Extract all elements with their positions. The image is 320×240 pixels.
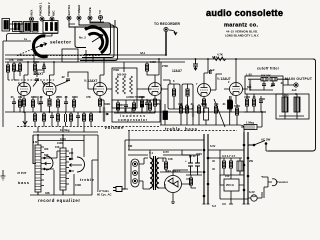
grid resistor RB	[18, 64, 21, 71]
value label .05 at 64,98	[64, 95, 68, 99]
svg-text:MAIN OUTPUT: MAIN OUTPUT	[285, 77, 313, 81]
value label 6 at 44,84	[44, 81, 46, 85]
wire dropper drops	[224, 158, 240, 175]
svg-text:TUNER: TUNER	[77, 4, 81, 15]
label no2	[79, 36, 86, 40]
bias cap m5 electrolytic	[65, 114, 67, 122]
input jack TUNER label	[77, 4, 81, 15]
tube V2 12AX7b	[43, 83, 56, 96]
tube V2 plate wire	[50, 62, 55, 83]
svg-text:600: 600	[247, 85, 252, 89]
filter resistor h2	[270, 78, 277, 81]
input jack PHONO2 label	[52, 10, 56, 16]
value label .03 at 280,84	[280, 81, 284, 85]
selector wafer 2 inner arc	[89, 33, 103, 49]
svg-text:12AX7: 12AX7	[33, 72, 43, 76]
wire V3 to box	[107, 88, 143, 90]
jack terminal 3	[50, 17, 54, 21]
wire bottom rail ps	[220, 199, 248, 204]
label 117 volts	[97, 189, 109, 193]
svg-text:12AU7: 12AU7	[172, 69, 182, 73]
mid band cap q7 dark	[228, 100, 233, 109]
value label 300 at 44,150	[44, 147, 49, 151]
filter cap f2	[195, 158, 200, 172]
svg-text:5600: 5600	[118, 103, 124, 107]
value label 470 at 186,180	[186, 177, 191, 181]
AC switch lever	[248, 141, 265, 146]
svg-text:.1uF: .1uF	[291, 88, 297, 92]
svg-text:6.3: 6.3	[212, 204, 216, 208]
label 1700	[14, 69, 20, 73]
resistor 47k in network	[51, 23, 53, 31]
resistor row1 c	[56, 100, 59, 107]
power box top edge	[125, 139, 204, 141]
wire left edge bus	[2, 41, 4, 127]
wire mid right drops	[244, 94, 266, 112]
svg-text:33K: 33K	[45, 191, 50, 195]
power box left edge	[125, 140, 128, 189]
svg-text:AUDIO TAPER: AUDIO TAPER	[126, 95, 144, 99]
svg-text:220K: 220K	[259, 97, 265, 101]
value label 1 M at 18,98	[18, 95, 22, 99]
filter cap f1 plus	[185, 159, 187, 163]
jack terminal 5	[77, 16, 81, 20]
bass wiper arrow	[45, 162, 52, 165]
value label 47K at 9,61	[9, 58, 14, 62]
selector wafer 2 spoke	[92, 35, 103, 43]
wire lamp	[248, 192, 262, 198]
svg-text:TV: TV	[98, 10, 102, 14]
svg-text:MIC: MIC	[52, 10, 56, 16]
wire right B+ drop	[268, 59, 316, 151]
title: address line 1	[226, 30, 258, 34]
rectifier internals	[168, 178, 178, 187]
value label 600 at 247,88	[247, 85, 252, 89]
choke resistor	[164, 162, 167, 169]
treble wiper arrow	[70, 164, 83, 167]
loudness cap b	[124, 105, 128, 106]
svg-text:record equalizer: record equalizer	[38, 198, 80, 203]
label record equalizer	[38, 198, 80, 203]
bias resistor m9	[89, 114, 92, 121]
wire jack bus to wafer2 outer	[69, 20, 118, 61]
value label 47K at 178,105	[178, 102, 183, 106]
svg-text:220: 220	[69, 151, 74, 155]
mid right cap p3	[259, 101, 263, 102]
mid band box q5	[204, 108, 209, 120]
wire can caps	[279, 94, 304, 119]
value label 2 at 18,84	[18, 81, 20, 85]
wire V6 cathode out	[236, 89, 248, 104]
far left input box	[2, 19, 10, 32]
mid band resistor q6	[214, 106, 217, 113]
value label 40 at 212,170	[212, 167, 215, 171]
svg-text:LONG ISLAND CITY 1, N.Y.: LONG ISLAND CITY 1, N.Y.	[225, 33, 259, 37]
jack terminal 2	[40, 17, 44, 21]
svg-text:No. 2: No. 2	[79, 36, 86, 40]
svg-text:.1uF: .1uF	[209, 68, 215, 72]
wire coupling 2	[56, 72, 88, 86]
cap top c2	[42, 67, 46, 68]
tube V4 12AX7	[149, 83, 162, 96]
coupling cap V1-V2	[35, 79, 39, 80]
volume pot	[103, 107, 105, 122]
svg-text:4.7K: 4.7K	[217, 53, 223, 57]
resistor row1 e	[72, 100, 75, 107]
wire top c drops	[35, 62, 44, 75]
label MAIN OUTPUT	[285, 77, 313, 81]
filter resistor h1	[261, 78, 268, 81]
svg-text:450V: 450V	[196, 152, 202, 156]
bus bar B dots	[243, 144, 245, 146]
wire eq bottoms	[30, 135, 98, 195]
transformer primary	[150, 158, 153, 188]
resistor mid f1	[140, 100, 143, 107]
label 5600 bottom	[118, 103, 124, 107]
title: address line 2	[225, 33, 259, 37]
svg-text:47K: 47K	[86, 95, 91, 99]
wire eq links	[45, 148, 75, 171]
wire V5 plate	[204, 59, 208, 84]
chassis dashed line right	[128, 130, 237, 132]
label AC SW	[261, 138, 271, 142]
value label 390 at 69,160	[69, 157, 74, 161]
input jack EXTRA label	[67, 4, 71, 15]
svg-text:500K: 500K	[234, 104, 240, 108]
switch contact strip	[131, 159, 139, 187]
bias box	[224, 179, 239, 191]
value label .02 at 39,98	[39, 95, 43, 99]
svg-text:47K: 47K	[178, 102, 183, 106]
label 3.3 4.7	[222, 154, 236, 158]
value label 500K at 104,105	[104, 102, 110, 106]
label bass mid	[185, 127, 198, 132]
bass wiper arc	[46, 156, 53, 170]
value label .01 at 270,87	[270, 84, 274, 88]
tone box B resistor	[186, 89, 189, 96]
svg-text:560 560: 560 560	[117, 73, 127, 77]
pilot lamp	[251, 195, 257, 201]
value label 270K at 56,98	[56, 95, 62, 99]
value label 3300 at 201,105	[201, 102, 207, 106]
loudness compensator box	[112, 100, 160, 122]
mid band pot q3	[192, 104, 194, 120]
bass wiper dots	[44, 157, 46, 159]
electrolytic cap can 2	[294, 97, 300, 112]
bias resistor m8	[82, 114, 85, 121]
jack terminal 1	[30, 17, 34, 21]
wire mid rail	[5, 111, 266, 113]
svg-text:1500: 1500	[72, 95, 78, 99]
svg-text:volume: volume	[105, 125, 125, 130]
label 2500	[226, 183, 234, 187]
mid right resistor p2	[252, 99, 255, 106]
hum pot rail	[220, 150, 244, 199]
input jack AUX label	[30, 10, 34, 16]
label half 12AX7	[84, 79, 98, 83]
label 1uF out	[291, 88, 297, 92]
label 60 cyc	[97, 193, 112, 197]
svg-text:AUX: AUX	[30, 10, 34, 16]
selector wafer 2 outer arc	[85, 27, 107, 53]
recorder terminal	[164, 27, 168, 31]
svg-text:PHONO 2: PHONO 2	[47, 2, 51, 16]
svg-text:1 Meg: 1 Meg	[246, 121, 254, 125]
wire bus links	[208, 150, 244, 158]
grid resistor RA	[12, 64, 15, 71]
svg-text:300: 300	[44, 147, 49, 151]
tube V1 plate wire	[24, 62, 28, 83]
svg-text:10K: 10K	[168, 157, 173, 161]
wire eq feed drops	[38, 127, 84, 132]
treble ladder column	[60, 148, 66, 190]
svg-text:.01: .01	[222, 102, 226, 106]
svg-text:.05: .05	[64, 95, 68, 99]
value label 150 at 225,177	[225, 174, 230, 178]
label 1000b	[55, 145, 60, 149]
input attenuator box 2	[32, 22, 38, 33]
wire far left box	[10, 24, 24, 32]
input jack TV label	[98, 10, 102, 14]
wire V3 cathode	[99, 96, 101, 113]
svg-text:47K: 47K	[9, 58, 14, 62]
title: marantz co.	[224, 23, 258, 29]
wire mid band drops	[181, 96, 237, 125]
wire V6 plate	[235, 59, 237, 83]
filter caps	[262, 84, 266, 85]
bass ladder taps	[41, 147, 44, 186]
svg-text:6.3V: 6.3V	[210, 144, 216, 148]
input attenuator box 0	[13, 22, 23, 32]
value label AUDIO TAPER at 126,98	[126, 95, 144, 99]
AC plug	[116, 187, 122, 192]
svg-text:50K 50K: 50K 50K	[261, 75, 271, 78]
wire RA RB drop	[14, 62, 20, 86]
jack terminal 6	[88, 16, 92, 20]
wire wafer2 out drop	[85, 50, 87, 62]
label selector	[50, 40, 71, 45]
value label 220 at 69,154	[69, 151, 74, 155]
value label 10K at 168,160	[168, 157, 173, 161]
contact circle 3	[133, 179, 138, 184]
junction dots	[27, 61, 29, 63]
svg-text:100K: 100K	[75, 183, 81, 187]
svg-text:47 PUT: 47 PUT	[17, 171, 27, 175]
wire left low drops	[14, 96, 20, 112]
value label 100K at 31,98	[31, 95, 37, 99]
record equalizer enclosure sides	[33, 135, 98, 190]
tone box A resistor	[172, 89, 175, 96]
svg-text:100K: 100K	[150, 60, 156, 64]
tube V3 grid wire	[88, 80, 96, 89]
eq inner top line	[38, 140, 84, 142]
bus bar pair A left	[204, 134, 208, 204]
label 12AU7	[172, 69, 182, 73]
wire treble rail corner	[160, 125, 244, 132]
svg-text:EXTRA: EXTRA	[67, 4, 71, 15]
record equalizer enclosure top	[33, 132, 98, 135]
svg-text:2W: 2W	[249, 159, 253, 163]
svg-text:100K: 100K	[31, 95, 37, 99]
wire coupling 1	[33, 70, 45, 87]
value label 100K at 150,63	[150, 60, 156, 64]
value label 1500 at 72,98	[72, 95, 78, 99]
surge resistor	[189, 178, 192, 185]
wire bias drops	[35, 112, 91, 127]
svg-text:cutoff filter: cutoff filter	[257, 67, 280, 71]
L-pad pot	[249, 79, 251, 91]
dark cap cylinder	[163, 111, 168, 120]
label treble eq	[80, 178, 94, 182]
label 40 40	[282, 93, 289, 97]
wire transformer leads	[139, 150, 166, 189]
resistor top c1	[33, 64, 36, 71]
cathode resistor V1	[22, 99, 25, 106]
cutoff filter box	[245, 76, 283, 94]
value label 450V at 196,155	[196, 152, 202, 156]
bias resistor m4	[56, 114, 59, 121]
loudness resistor c	[132, 103, 135, 110]
label cutoff filter	[257, 67, 280, 71]
value label .003 at 146,102	[146, 99, 152, 103]
svg-text:500K: 500K	[33, 60, 39, 64]
value label 220K at 259,100	[259, 97, 265, 101]
value label 40 at 212,162	[212, 159, 215, 163]
bus bar B feet	[243, 203, 250, 205]
label 4.7k	[217, 53, 223, 57]
wire jacks to boxes	[20, 21, 52, 33]
feedback resistor z1	[116, 76, 119, 94]
wire V5 cathode drop	[203, 97, 205, 113]
bypass cap row1	[39, 102, 43, 103]
wire lower rail	[5, 61, 185, 63]
dropper box d3	[237, 161, 243, 171]
bus bar A feet	[203, 203, 210, 205]
value label .02 at 45,85	[45, 82, 49, 86]
chassis dashed line	[17, 126, 160, 128]
input jack RADIO label	[39, 2, 43, 16]
wire volume feed	[100, 100, 104, 107]
wire recorder run	[5, 54, 166, 56]
wire V4 cathode	[154, 96, 156, 113]
plate load resistor V4	[145, 64, 148, 71]
wire far left load	[7, 62, 9, 80]
value label 117V at 163,153	[163, 150, 169, 154]
svg-text:470K: 470K	[244, 95, 250, 99]
bass ladder rail	[37, 135, 39, 195]
tube V5 half 12AU7a	[198, 84, 211, 97]
ground bottom left	[1, 170, 6, 180]
title: audio consolette	[206, 8, 283, 18]
svg-text:1 M: 1 M	[33, 140, 37, 144]
svg-text:SW: SW	[128, 144, 133, 148]
cap row1 d	[64, 102, 68, 103]
svg-text:PHONO 1: PHONO 1	[39, 2, 43, 16]
dashed gang line wafer1-wafer2	[17, 46, 40, 56]
value label 500K at 33,63	[33, 60, 39, 64]
svg-text:Fusistor: Fusistor	[277, 180, 289, 184]
treble wiper dots	[69, 158, 71, 160]
value label .02 at 61,78	[61, 75, 65, 79]
wire volume-treble boundary vertical	[160, 62, 162, 125]
svg-text:.02: .02	[190, 102, 194, 106]
switch section box	[62, 49, 78, 62]
value label 270K at 162,67	[162, 64, 168, 68]
AC switch contacts	[253, 144, 255, 146]
label rect	[166, 169, 181, 173]
wire mid f drops	[142, 96, 147, 112]
wire cyl leads	[164, 104, 166, 125]
bias cap m7	[76, 116, 80, 117]
input jack TAPE label	[88, 7, 92, 15]
cathode resistor V5	[202, 99, 205, 106]
svg-text:270K: 270K	[162, 64, 168, 68]
mid band resistor q1	[179, 106, 182, 113]
label 121	[212, 55, 217, 59]
value label 500K at 234,107	[234, 104, 240, 108]
svg-text:.03: .03	[280, 81, 284, 85]
value label 1 at 94,85	[94, 82, 96, 86]
dropper resistor d1	[222, 161, 225, 168]
treble ladder taps	[66, 151, 69, 184]
bias resistor m2	[42, 114, 45, 121]
svg-text:750K: 750K	[113, 68, 119, 72]
wire volume switch drop	[128, 131, 130, 150]
label volume	[105, 125, 125, 130]
feedback resistor z2	[123, 76, 126, 94]
svg-text:.003: .003	[146, 99, 152, 103]
svg-text:selector: selector	[50, 40, 71, 45]
tube V1 12AX7a	[18, 83, 31, 96]
label 1uF	[209, 68, 215, 72]
svg-text:390: 390	[69, 157, 74, 161]
svg-text:6.3V: 6.3V	[249, 190, 255, 194]
mid band resistor q8	[235, 108, 238, 115]
svg-text:.01: .01	[270, 84, 274, 88]
feedback resistor z3	[130, 76, 133, 94]
tube V4 grid wire	[142, 88, 151, 90]
selector wafer 1 hub	[40, 44, 42, 46]
dashed gang line horizontal	[17, 55, 100, 57]
svg-text:60 Cyc. AC: 60 Cyc. AC	[97, 193, 112, 197]
wire drops row1	[33, 96, 74, 112]
tube V3 half 12AX7	[94, 83, 107, 96]
label 7a	[24, 37, 27, 41]
tube V4 cathode resistor	[153, 99, 156, 106]
label 5600 top	[117, 73, 127, 77]
svg-text:TAPE: TAPE	[88, 7, 92, 15]
value label 1 M at 33,143	[33, 140, 37, 144]
svg-text:.05: .05	[10, 95, 14, 99]
tube V6 half 12AU7b	[230, 83, 243, 96]
electrolytic can box	[276, 94, 309, 119]
bias resistor m6	[69, 114, 72, 121]
wire jack bus nested 3	[84, 22, 111, 55]
fusistor symbol	[268, 177, 277, 187]
value label 750K at 113,71	[113, 68, 119, 72]
label treble	[165, 127, 181, 132]
value label 7 at 196,85	[196, 82, 198, 86]
wire jack bus nested 2	[79, 24, 114, 58]
svg-text:audio consolette: audio consolette	[206, 8, 283, 18]
wire surge	[188, 175, 196, 188]
wire wafer1 feed	[3, 40, 31, 42]
wire V4 load	[147, 62, 155, 75]
dropper resistor d2	[229, 161, 232, 168]
bass ladder column	[35, 145, 41, 192]
tone network box B	[182, 84, 193, 109]
svg-text:+: +	[185, 159, 187, 163]
